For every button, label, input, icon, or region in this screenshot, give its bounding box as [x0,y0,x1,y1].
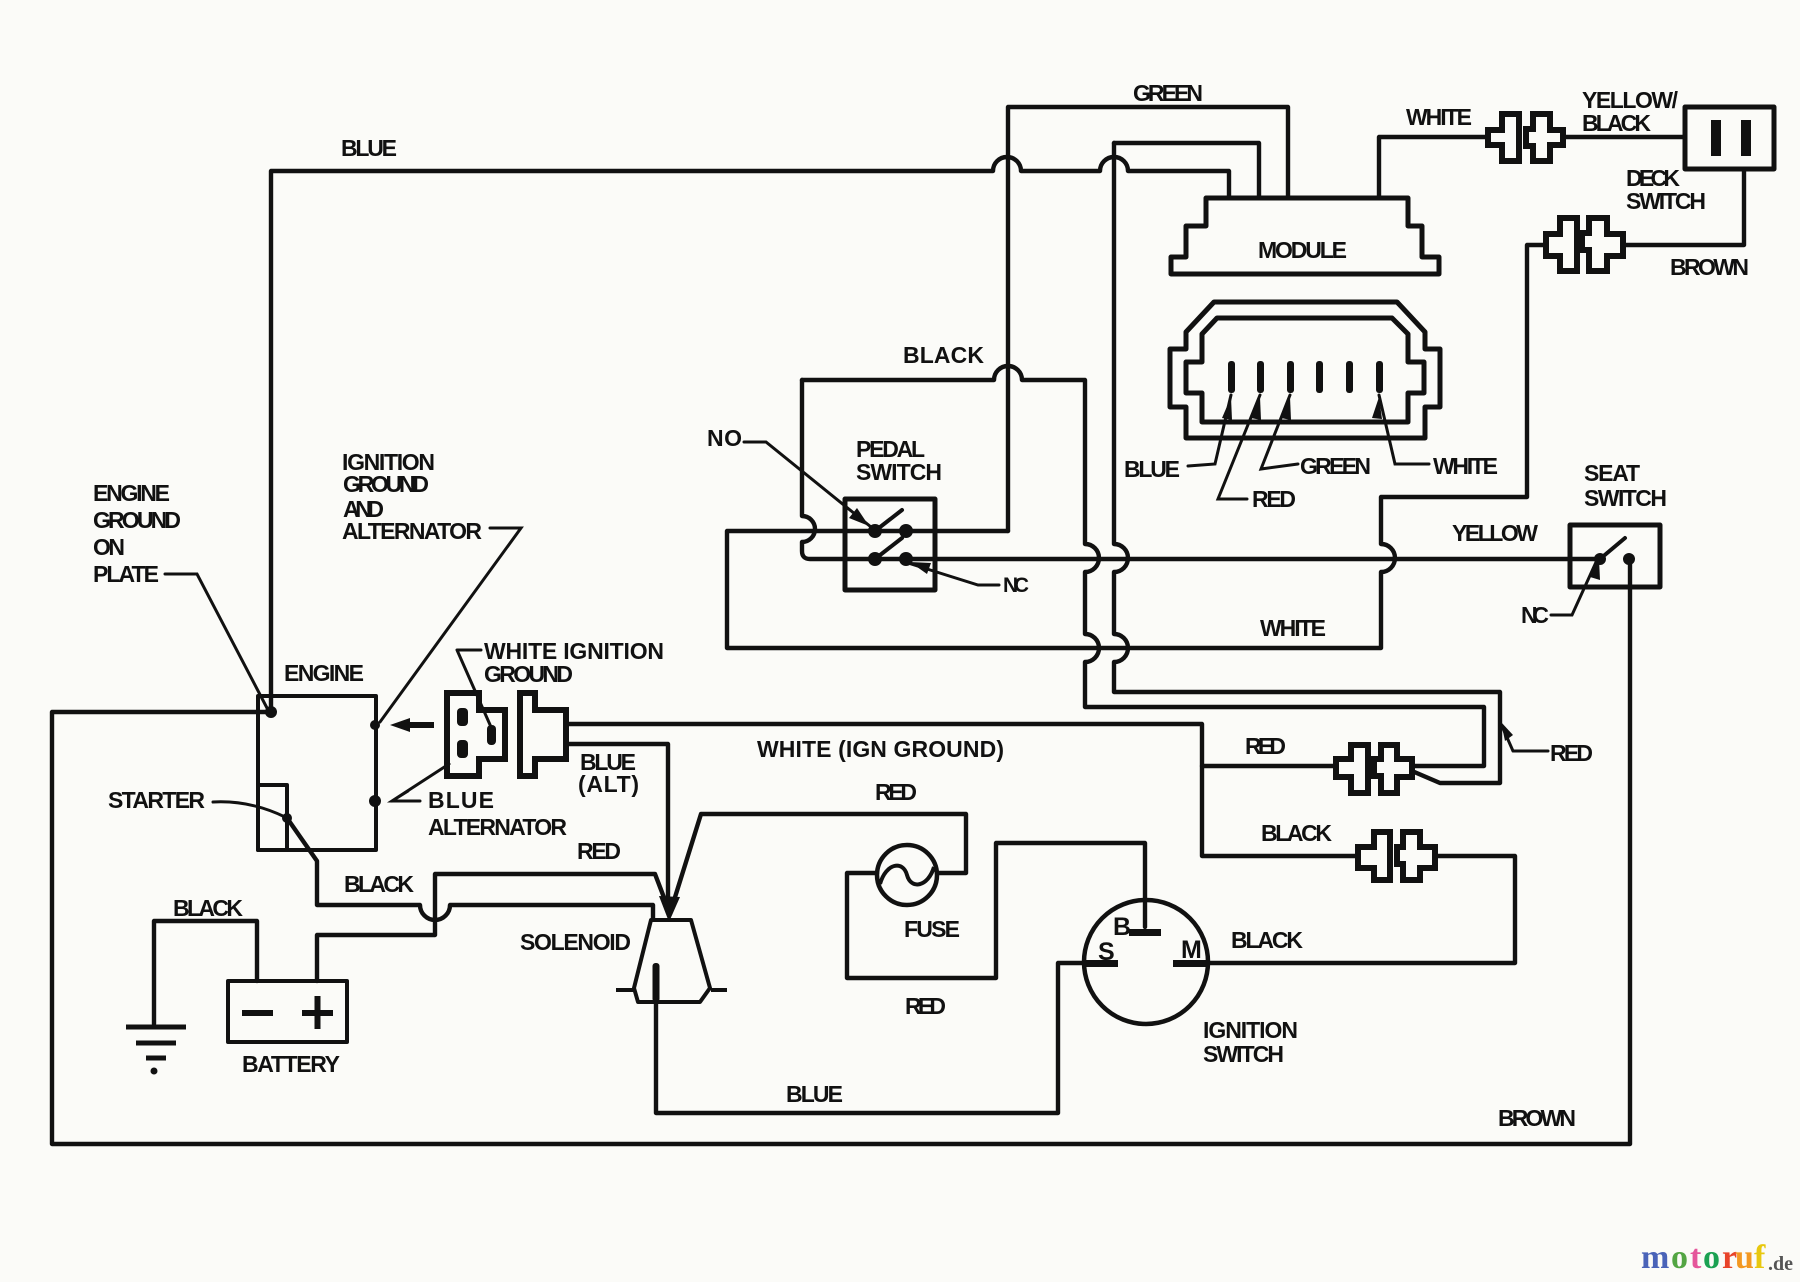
svg-text:WHITE: WHITE [1406,104,1473,130]
svg-text:SWITCH: SWITCH [1584,485,1668,511]
svg-text:ENGINE: ENGINE [93,480,171,506]
svg-text:BLACK: BLACK [1231,927,1304,953]
svg-text:SEAT: SEAT [1584,460,1641,486]
svg-text:RED: RED [905,993,947,1019]
svg-text:ALTERNATOR: ALTERNATOR [342,518,483,544]
svg-text:RED: RED [1252,486,1297,512]
svg-text:SOLENOID: SOLENOID [520,929,632,955]
svg-text:BLUE: BLUE [428,787,495,813]
svg-text:FUSE: FUSE [904,916,961,942]
svg-text:GROUND: GROUND [93,507,182,533]
svg-text:NC: NC [1003,574,1029,597]
svg-text:t: t [1690,1239,1702,1276]
svg-text:WHITE: WHITE [1433,453,1499,479]
svg-text:BLACK: BLACK [173,895,244,921]
svg-text:.de: .de [1768,1253,1793,1275]
svg-text:S: S [1098,938,1116,966]
svg-text:MODULE: MODULE [1258,237,1348,263]
svg-text:GREEN: GREEN [1133,80,1204,106]
svg-text:o: o [1671,1239,1688,1276]
svg-text:M: M [1181,936,1203,964]
svg-text:NC: NC [1521,602,1550,628]
svg-text:YELLOW: YELLOW [1452,520,1539,546]
svg-text:ALTERNATOR: ALTERNATOR [428,814,568,840]
svg-text:ENGINE: ENGINE [284,660,365,686]
svg-text:NO: NO [707,425,743,451]
svg-text:ON: ON [93,534,126,560]
svg-text:GROUND: GROUND [343,471,430,497]
svg-text:BLUE: BLUE [786,1081,844,1107]
svg-text:BLACK: BLACK [1582,110,1652,136]
svg-text:o: o [1703,1239,1720,1276]
svg-text:GREEN: GREEN [1300,453,1372,479]
svg-text:RED: RED [875,779,918,805]
svg-text:BROWN: BROWN [1498,1105,1577,1131]
svg-text:f: f [1754,1239,1766,1276]
svg-text:RED: RED [1550,740,1594,766]
svg-text:BLUE: BLUE [341,135,398,161]
svg-text:RED: RED [1245,733,1287,759]
svg-text:BATTERY: BATTERY [242,1051,341,1077]
svg-text:u: u [1735,1239,1754,1276]
svg-text:BLACK: BLACK [344,871,415,897]
svg-text:STARTER: STARTER [108,787,206,813]
svg-text:(ALT): (ALT) [578,771,640,797]
svg-text:BROWN: BROWN [1670,254,1750,280]
svg-text:BLACK: BLACK [903,342,985,368]
svg-text:BLACK: BLACK [1261,820,1333,846]
svg-text:SWITCH: SWITCH [1626,188,1707,214]
svg-text:GROUND: GROUND [484,661,574,687]
svg-text:PLATE: PLATE [93,561,160,587]
svg-text:WHITE: WHITE [1260,615,1327,641]
svg-text:B: B [1113,913,1132,941]
svg-text:SWITCH: SWITCH [1203,1041,1285,1067]
svg-text:RED: RED [577,838,622,864]
svg-text:WHITE (IGN GROUND): WHITE (IGN GROUND) [757,736,1005,762]
svg-text:m: m [1641,1239,1669,1276]
svg-text:IGNITION: IGNITION [1203,1017,1299,1043]
svg-text:BLUE: BLUE [1124,456,1181,482]
svg-text:SWITCH: SWITCH [856,459,943,485]
